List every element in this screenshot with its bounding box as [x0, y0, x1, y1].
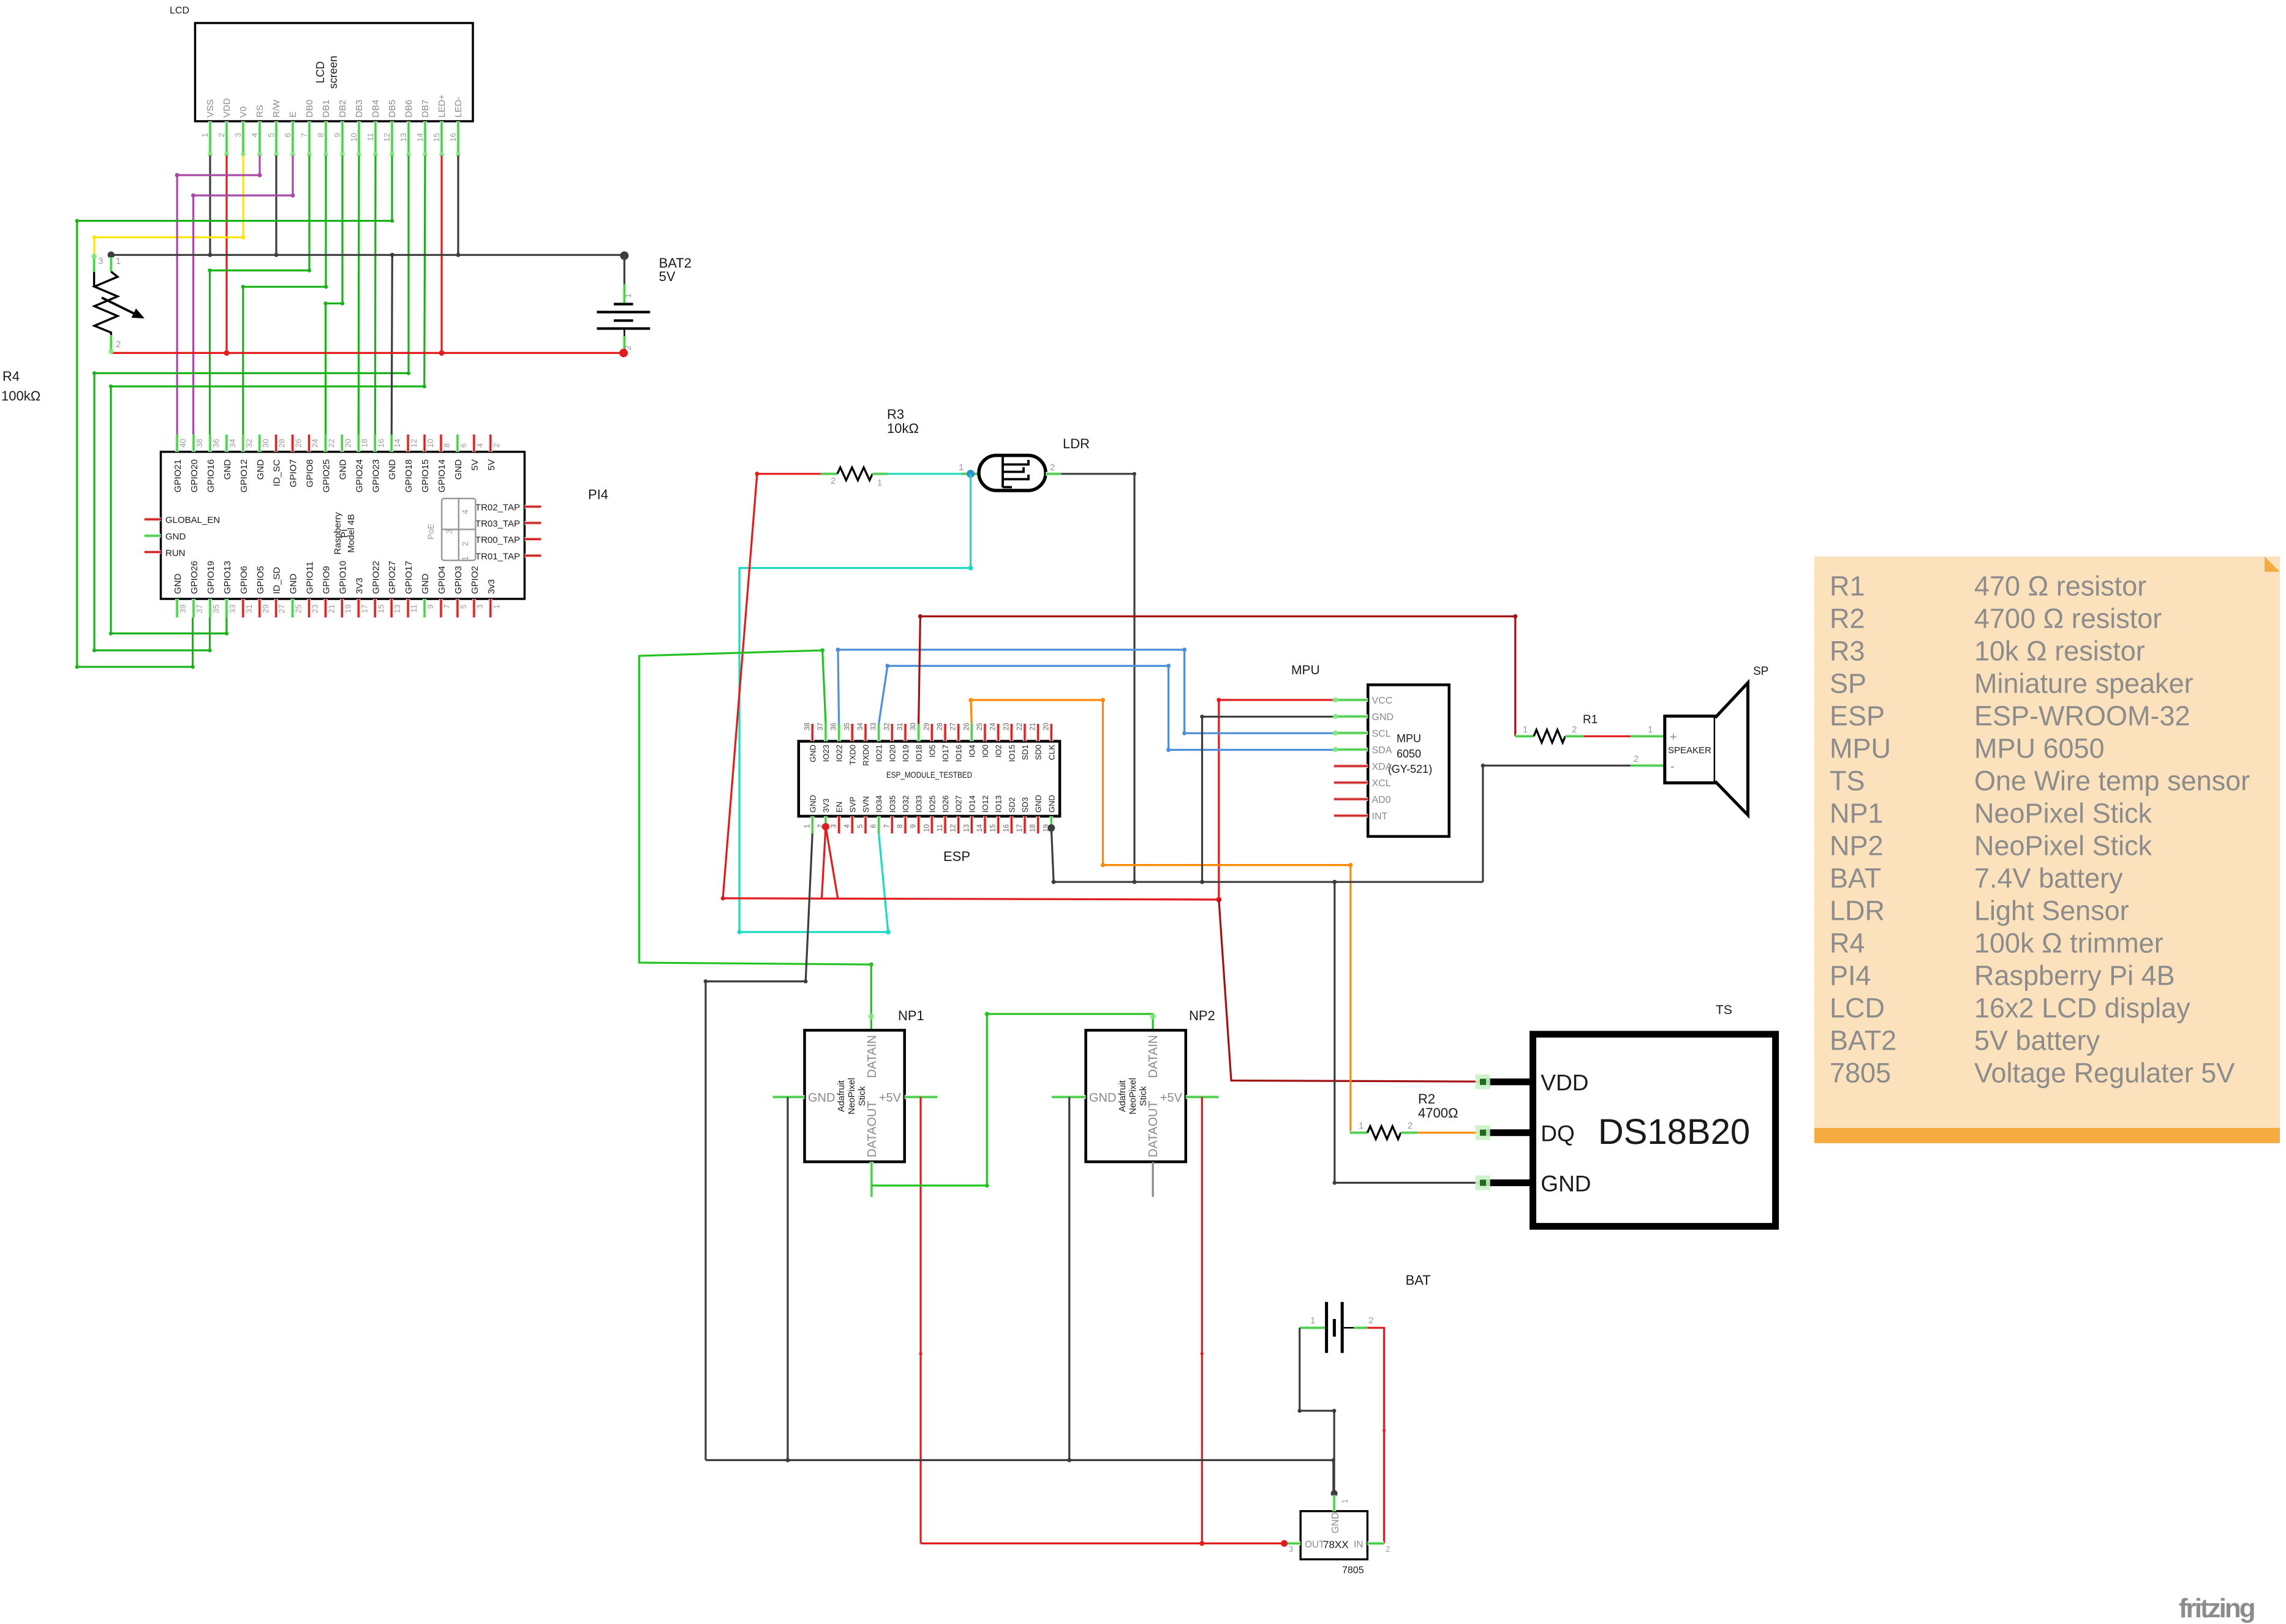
svg-text:R3: R3 [887, 407, 904, 422]
svg-text:7: 7 [442, 604, 451, 609]
svg-text:Stick: Stick [857, 1086, 867, 1106]
svg-text:5: 5 [857, 824, 864, 828]
svg-text:DATAIN: DATAIN [866, 1035, 879, 1078]
svg-text:IO22: IO22 [835, 745, 844, 762]
svg-text:38: 38 [804, 723, 811, 731]
LCD pin 8 DB1 [324, 121, 328, 156]
svg-text:OUT: OUT [1305, 1539, 1325, 1550]
svg-text:21: 21 [1030, 723, 1037, 731]
svg-text:1: 1 [1523, 724, 1528, 735]
ESP bottom pin 5 SVN [864, 816, 867, 833]
svg-text:TXD0: TXD0 [848, 745, 857, 765]
svg-text:3: 3 [233, 133, 243, 137]
wire LCD RS to PI4 GPIO21 [177, 156, 260, 435]
svg-text:3v3: 3v3 [486, 579, 497, 594]
svg-text:9: 9 [910, 824, 918, 828]
PI4 bottom pin 1 3v3 [489, 599, 492, 617]
LCD pin 7 DB0 [307, 121, 311, 156]
svg-text:ESP-WROOM-32: ESP-WROOM-32 [1974, 701, 2190, 732]
ESP top pin 38 GND [810, 724, 814, 742]
ESP bottom pin 18 GND [1036, 816, 1040, 833]
svg-text:IO34: IO34 [875, 795, 884, 813]
svg-text:GPIO3: GPIO3 [453, 566, 464, 594]
svg-text:1: 1 [200, 133, 209, 137]
ESP top pin 29 IO5 [930, 724, 934, 742]
PI4 left pin GLOBAL_EN [145, 517, 161, 521]
svg-text:35: 35 [843, 723, 851, 731]
svg-text:2: 2 [116, 339, 121, 350]
speaker horn [1715, 683, 1748, 815]
svg-text:LDR: LDR [1063, 436, 1090, 451]
svg-text:SD2: SD2 [1007, 797, 1016, 813]
svg-text:IO12: IO12 [981, 795, 990, 813]
svg-text:TR00_TAP: TR00_TAP [475, 535, 520, 545]
svg-text:470 Ω resistor: 470 Ω resistor [1974, 571, 2146, 602]
PI4 bottom pin 21 GPIO9 [323, 599, 327, 617]
wire 3V3 to R3 pin2 [757, 473, 821, 475]
MPU pin SDA [1334, 748, 1368, 751]
svg-text:TS: TS [1716, 1003, 1732, 1017]
svg-text:16: 16 [448, 133, 458, 141]
svg-text:DB4: DB4 [371, 100, 381, 118]
7805 GND pin [1331, 1490, 1338, 1497]
wire R2 to TS DQ [1417, 1132, 1482, 1133]
svg-text:NP1: NP1 [1830, 798, 1884, 829]
svg-text:IO33: IO33 [915, 795, 924, 813]
node 3V3/VCC junction [1216, 897, 1221, 903]
svg-text:10: 10 [349, 133, 358, 141]
svg-text:IO20: IO20 [888, 745, 897, 762]
svg-text:4: 4 [843, 824, 851, 828]
svg-text:-: - [1670, 760, 1675, 773]
PI4 bottom pin 27 ID_SD [274, 599, 278, 617]
svg-text:IO15: IO15 [1007, 745, 1016, 762]
svg-text:16: 16 [376, 439, 385, 448]
svg-text:GND: GND [222, 459, 233, 480]
wire BAT minus to 7805 GND [1300, 1328, 1334, 1494]
ESP top pin 21 SD0 [1036, 724, 1040, 742]
svg-text:LCD: LCD [314, 61, 326, 83]
svg-text:33: 33 [870, 723, 878, 731]
svg-text:SD0: SD0 [1034, 745, 1043, 760]
svg-text:10: 10 [426, 439, 435, 448]
svg-text:4: 4 [250, 133, 259, 137]
svg-text:GND: GND [1089, 1091, 1116, 1105]
PI4 PoE header [442, 498, 475, 560]
wire LCD DB7 to PI4 GPIO13 [111, 156, 425, 633]
svg-text:14: 14 [393, 439, 402, 448]
svg-text:SVN: SVN [861, 796, 870, 813]
svg-text:GPIO16: GPIO16 [206, 459, 216, 492]
svg-text:4: 4 [475, 443, 485, 448]
MPU pin AD0 [1334, 797, 1368, 801]
LCD pin 13 DB6 [407, 121, 410, 156]
wire GND rail R4 to BAT2 [111, 254, 624, 256]
TS pin GND [1483, 1179, 1530, 1186]
svg-text:32: 32 [883, 723, 891, 731]
legend bottom bar [1814, 1128, 2280, 1143]
PI4 top pin 4 5V [472, 435, 476, 452]
svg-text:VDD: VDD [222, 98, 232, 118]
svg-text:TR01_TAP: TR01_TAP [475, 551, 520, 562]
node MPU GND junction [1200, 880, 1204, 884]
svg-text:6050: 6050 [1397, 748, 1421, 760]
svg-text:IO16: IO16 [954, 745, 964, 762]
svg-text:GPIO12: GPIO12 [239, 459, 249, 492]
wire LCD DB2 to PI4 GPIO25 [326, 156, 342, 435]
svg-text:35: 35 [211, 604, 221, 613]
svg-text:DB7: DB7 [420, 100, 431, 118]
PI4 bottom pin 7 GPIO4 [439, 599, 443, 617]
svg-text:21: 21 [326, 604, 336, 613]
svg-text:15: 15 [990, 824, 997, 832]
MPU pin VCC [1334, 698, 1368, 702]
PI4 top pin 34 GND [225, 435, 228, 452]
svg-text:TR03_TAP: TR03_TAP [475, 519, 520, 529]
ESP bottom pin 10 IO25 [930, 816, 934, 833]
NP2 DATAOUT pin (unconnected) [1152, 1162, 1153, 1197]
svg-text:3V3: 3V3 [821, 799, 831, 813]
svg-text:1: 1 [1359, 1121, 1364, 1131]
PI4 left pin GND [145, 534, 161, 538]
wire 5V OUT rail [921, 1543, 1284, 1544]
svg-text:1: 1 [116, 256, 121, 266]
svg-text:IO21: IO21 [875, 745, 884, 762]
svg-text:6: 6 [283, 133, 292, 137]
PI4 bottom pin 35 GPIO19 [208, 599, 212, 617]
wire NP1 GND to bottom rail [787, 1097, 788, 1460]
PI4 top pin 8 GPIO14 [439, 435, 443, 452]
svg-text:IO35: IO35 [888, 795, 897, 813]
7805 OUT pin [1284, 1541, 1301, 1545]
svg-text:GPIO7: GPIO7 [289, 459, 299, 487]
svg-text:2: 2 [623, 345, 633, 350]
PI4 top pin 26 GPIO7 [291, 435, 295, 452]
ESP top pin 23 IO15 [1009, 724, 1013, 742]
svg-text:3: 3 [1289, 1544, 1293, 1554]
svg-text:Model 4B: Model 4B [346, 514, 356, 552]
node R3/LDR junction [967, 470, 975, 478]
PI4 bottom pin 23 GPIO11 [307, 599, 311, 617]
svg-text:NP2: NP2 [1830, 830, 1884, 862]
svg-text:18: 18 [360, 439, 369, 448]
neopixel NP1 box [805, 1030, 905, 1162]
wire speaker minus to GND rail [1483, 765, 1631, 882]
svg-text:IN: IN [1354, 1539, 1364, 1550]
NP2 GND pin [1052, 1095, 1086, 1099]
wire LCD VSS to GND rail [209, 156, 211, 255]
svg-text:screen: screen [327, 56, 339, 89]
LCD pin 1 VSS [208, 121, 212, 156]
svg-text:GND: GND [165, 532, 186, 542]
MPU 6050 box [1368, 685, 1449, 836]
svg-text:27: 27 [950, 723, 957, 731]
svg-text:PoE: PoE [426, 524, 436, 539]
svg-text:28: 28 [937, 723, 944, 731]
svg-text:TS: TS [1830, 765, 1865, 797]
svg-text:27: 27 [277, 604, 287, 613]
svg-text:DB0: DB0 [304, 100, 315, 118]
PI4 bottom pin 15 GPIO22 [373, 599, 377, 617]
svg-text:1: 1 [623, 293, 633, 298]
ESP top pin 33 IO21 [877, 724, 881, 742]
svg-text:8: 8 [316, 133, 325, 137]
wire bottom GND rail [706, 1459, 1333, 1461]
svg-text:NeoPixel: NeoPixel [1128, 1078, 1138, 1115]
PI4 top pin 16 GPIO23 [373, 435, 377, 452]
svg-text:5V: 5V [470, 459, 480, 470]
wire LCD DB6 to PI4 GPIO19 [94, 156, 409, 650]
svg-text:15: 15 [432, 133, 441, 141]
svg-text:SPEAKER: SPEAKER [1668, 745, 1711, 756]
svg-text:LED-: LED- [453, 97, 464, 118]
svg-text:GPIO5: GPIO5 [255, 566, 266, 594]
svg-text:100k Ω trimmer: 100k Ω trimmer [1974, 928, 2163, 959]
svg-text:CLK: CLK [1047, 745, 1056, 761]
PI4 bottom pin 19 GPIO10 [340, 599, 344, 617]
svg-text:GND: GND [808, 1091, 835, 1105]
PI4 bottom pin 11 GPIO17 [406, 599, 410, 617]
svg-text:5V battery: 5V battery [1974, 1025, 2100, 1056]
svg-text:GND: GND [289, 574, 299, 595]
svg-text:ESP_MODULE_TESTBED: ESP_MODULE_TESTBED [886, 770, 972, 780]
svg-text:Adafruit: Adafruit [1117, 1080, 1128, 1112]
svg-text:3: 3 [444, 529, 454, 534]
svg-text:VCC: VCC [1372, 696, 1393, 706]
svg-text:24: 24 [311, 439, 320, 448]
svg-text:SD1: SD1 [1020, 745, 1030, 760]
LCD pin 2 VDD [225, 121, 228, 156]
PI4 top pin 32 GPIO12 [241, 435, 245, 452]
svg-text:12: 12 [409, 439, 418, 448]
MPU pin XCL [1334, 781, 1368, 784]
svg-text:20: 20 [1043, 723, 1050, 731]
svg-text:GPIO17: GPIO17 [404, 561, 414, 594]
ESP bottom pin 1 GND [810, 816, 814, 833]
svg-text:SP: SP [1830, 668, 1866, 699]
svg-text:IO5: IO5 [927, 745, 937, 757]
svg-text:23: 23 [311, 604, 320, 613]
PI4 bottom pin 9 GND [423, 599, 426, 617]
PI4 top pin 14 GND [390, 435, 393, 452]
svg-text:EN: EN [835, 802, 844, 813]
svg-text:13: 13 [963, 824, 970, 832]
svg-text:7.4V battery: 7.4V battery [1974, 863, 2123, 894]
LCD screen box [195, 23, 473, 121]
svg-text:GND: GND [1330, 1513, 1341, 1533]
svg-text:19: 19 [343, 604, 352, 613]
svg-text:17: 17 [1016, 824, 1024, 832]
svg-text:34: 34 [857, 723, 864, 731]
svg-text:GPIO11: GPIO11 [305, 562, 315, 594]
svg-text:ESP: ESP [1830, 701, 1885, 732]
svg-text:15: 15 [376, 604, 385, 613]
svg-text:GPIO6: GPIO6 [239, 566, 249, 594]
svg-text:13: 13 [399, 133, 408, 141]
svg-text:8: 8 [897, 824, 904, 828]
svg-text:IO27: IO27 [954, 795, 964, 813]
svg-text:GND: GND [338, 459, 348, 480]
svg-text:Stick: Stick [1138, 1086, 1149, 1106]
svg-text:3: 3 [831, 824, 838, 828]
ESP module box [799, 742, 1060, 816]
svg-text:4700Ω: 4700Ω [1418, 1105, 1458, 1121]
LCD pin 16 LED- [456, 121, 460, 156]
svg-text:26: 26 [294, 439, 303, 448]
regulator 7805 box [1300, 1511, 1367, 1560]
MPU pin SCL [1334, 731, 1368, 735]
svg-text:13: 13 [393, 604, 402, 613]
svg-text:GND: GND [808, 745, 817, 762]
svg-text:39: 39 [178, 604, 187, 613]
svg-text:LCD: LCD [170, 6, 189, 16]
svg-text:16x2 LCD display: 16x2 LCD display [1974, 993, 2190, 1024]
PI4 right pin TR01_TAP [524, 554, 541, 557]
wire LCD VDD to 5V rail [225, 156, 227, 353]
svg-text:IO2: IO2 [994, 745, 1003, 757]
svg-text:7: 7 [883, 824, 891, 828]
node LDR GND junction [1133, 880, 1137, 884]
PI4 top pin 2 5V [489, 435, 492, 452]
svg-text:R2: R2 [1418, 1091, 1435, 1107]
wire LCD DB0 to PI4 GPIO16 [210, 156, 310, 435]
svg-text:3: 3 [98, 256, 103, 266]
wire NP1 DATAOUT to NP2 DATAIN [872, 1014, 1153, 1186]
svg-text:7805: 7805 [1830, 1058, 1891, 1089]
ESP bottom pin 8 IO32 [903, 816, 907, 833]
svg-text:DB6: DB6 [404, 100, 414, 118]
svg-text:IO0: IO0 [981, 745, 990, 757]
svg-text:R1: R1 [1830, 571, 1865, 602]
svg-text:DB5: DB5 [387, 100, 398, 118]
svg-text:INT: INT [1372, 811, 1388, 822]
svg-text:GND: GND [387, 459, 398, 480]
svg-text:RUN: RUN [165, 548, 186, 558]
svg-text:R4: R4 [2, 369, 20, 384]
svg-text:XCL: XCL [1372, 778, 1391, 789]
ESP bottom pin 16 SD2 [1009, 816, 1013, 833]
svg-text:IO13: IO13 [994, 795, 1003, 813]
wire GND rail to TS GND [1335, 882, 1483, 1182]
ESP bottom pin 13 IO14 [970, 816, 973, 833]
NP1 GND pin [773, 1095, 805, 1099]
svg-text:5V: 5V [486, 459, 497, 470]
svg-text:GND: GND [1372, 712, 1394, 723]
svg-text:R4: R4 [1830, 928, 1865, 959]
wire NP2 +5V to 7805 OUT rail [1201, 1097, 1203, 1543]
svg-text:GND: GND [1541, 1171, 1591, 1197]
svg-text:fritzing: fritzing [2179, 1593, 2254, 1623]
svg-text:38: 38 [195, 439, 204, 448]
svg-text:1: 1 [460, 556, 470, 561]
wire GND rail drop to PI4 pin14 [391, 255, 392, 434]
ESP bottom pin 2 3V3 [824, 816, 828, 833]
svg-text:IO32: IO32 [901, 795, 910, 813]
PI4 top pin 20 GND [340, 435, 344, 452]
svg-text:AD0: AD0 [1372, 795, 1391, 805]
svg-text:30: 30 [261, 439, 270, 448]
wire 3V3 to TS VDD [1219, 900, 1483, 1081]
svg-text:10: 10 [923, 824, 930, 832]
svg-text:DB1: DB1 [321, 100, 331, 118]
7805 IN pin [1367, 1541, 1384, 1545]
wire ESP IO18 to R1 [919, 617, 1515, 737]
svg-text:GPIO23: GPIO23 [371, 459, 381, 492]
svg-text:5: 5 [459, 604, 468, 609]
wire MPU GND [1202, 716, 1334, 882]
neopixel NP2 box [1086, 1030, 1186, 1162]
wire R1 to speaker plus [1583, 735, 1642, 737]
ESP bottom pin 17 SD3 [1023, 816, 1027, 833]
ESP top pin 26 IO4 [970, 724, 973, 742]
svg-text:11: 11 [937, 824, 944, 832]
svg-text:BAT: BAT [1830, 863, 1881, 894]
wire 3V3 riser R3 to rail [723, 474, 757, 898]
wire LCD R/W to GND rail [275, 156, 277, 255]
ESP top pin 20 CLK [1049, 724, 1053, 742]
svg-text:1: 1 [1648, 724, 1653, 735]
svg-text:23: 23 [1003, 723, 1010, 731]
PI4 right pin TR02_TAP [524, 505, 541, 508]
LDR squiggle [1003, 457, 1028, 487]
svg-text:Light Sensor: Light Sensor [1974, 895, 2129, 927]
svg-text:DB2: DB2 [338, 100, 348, 118]
svg-text:GPIO2: GPIO2 [470, 566, 480, 594]
svg-text:25: 25 [976, 723, 984, 731]
ESP bottom pin 7 IO35 [890, 816, 894, 833]
svg-text:GND: GND [173, 574, 183, 595]
svg-text:28: 28 [277, 439, 287, 448]
PI4 top pin 24 GPIO8 [307, 435, 311, 452]
svg-text:11: 11 [409, 604, 418, 613]
svg-text:78XX: 78XX [1323, 1539, 1349, 1551]
svg-text:Adafruit: Adafruit [836, 1080, 847, 1112]
LCD pin 10 DB3 [357, 121, 361, 156]
svg-text:2: 2 [1368, 1315, 1373, 1326]
svg-text:37: 37 [195, 604, 204, 613]
svg-text:SDA: SDA [1372, 745, 1392, 756]
LCD pin 5 R/W [274, 121, 278, 156]
svg-text:31: 31 [244, 604, 254, 613]
PI4 bottom pin 37 GPIO26 [192, 599, 195, 617]
svg-text:GPIO18: GPIO18 [404, 459, 414, 492]
R4 wiper arrow [102, 298, 138, 316]
svg-text:E: E [288, 111, 298, 118]
ESP top pin 24 IO2 [997, 724, 1000, 742]
svg-text:Raspberry Pi 4B: Raspberry Pi 4B [1974, 960, 2175, 991]
svg-text:30: 30 [910, 723, 918, 731]
wire LCD DB1 to PI4 GPIO12 [243, 156, 326, 435]
svg-text:NeoPixel Stick: NeoPixel Stick [1974, 830, 2152, 862]
svg-text:2: 2 [1050, 462, 1055, 473]
svg-text:1: 1 [804, 824, 811, 828]
wire LCD E to PI4 GPIO20 [194, 156, 293, 435]
svg-text:3V3: 3V3 [354, 577, 364, 594]
wire GND rail middle [1054, 881, 1483, 883]
svg-text:GPIO26: GPIO26 [189, 561, 200, 594]
svg-text:33: 33 [228, 604, 237, 613]
wire LCD DB5 to PI4 GPIO26 [77, 156, 392, 667]
svg-text:MPU 6050: MPU 6050 [1974, 733, 2105, 764]
svg-text:R3: R3 [1830, 636, 1865, 667]
wire LDR junction to ESP IO34 [739, 474, 970, 932]
svg-text:SCL: SCL [1372, 729, 1391, 739]
ESP bottom pin 14 IO12 [983, 816, 987, 833]
wire ESP IO22 to MPU SCL [838, 650, 1334, 733]
LCD pin 14 DB7 [423, 121, 427, 156]
ESP top pin 28 IO17 [943, 724, 947, 742]
wire ESP IO21 to MPU SDA [879, 666, 1334, 750]
